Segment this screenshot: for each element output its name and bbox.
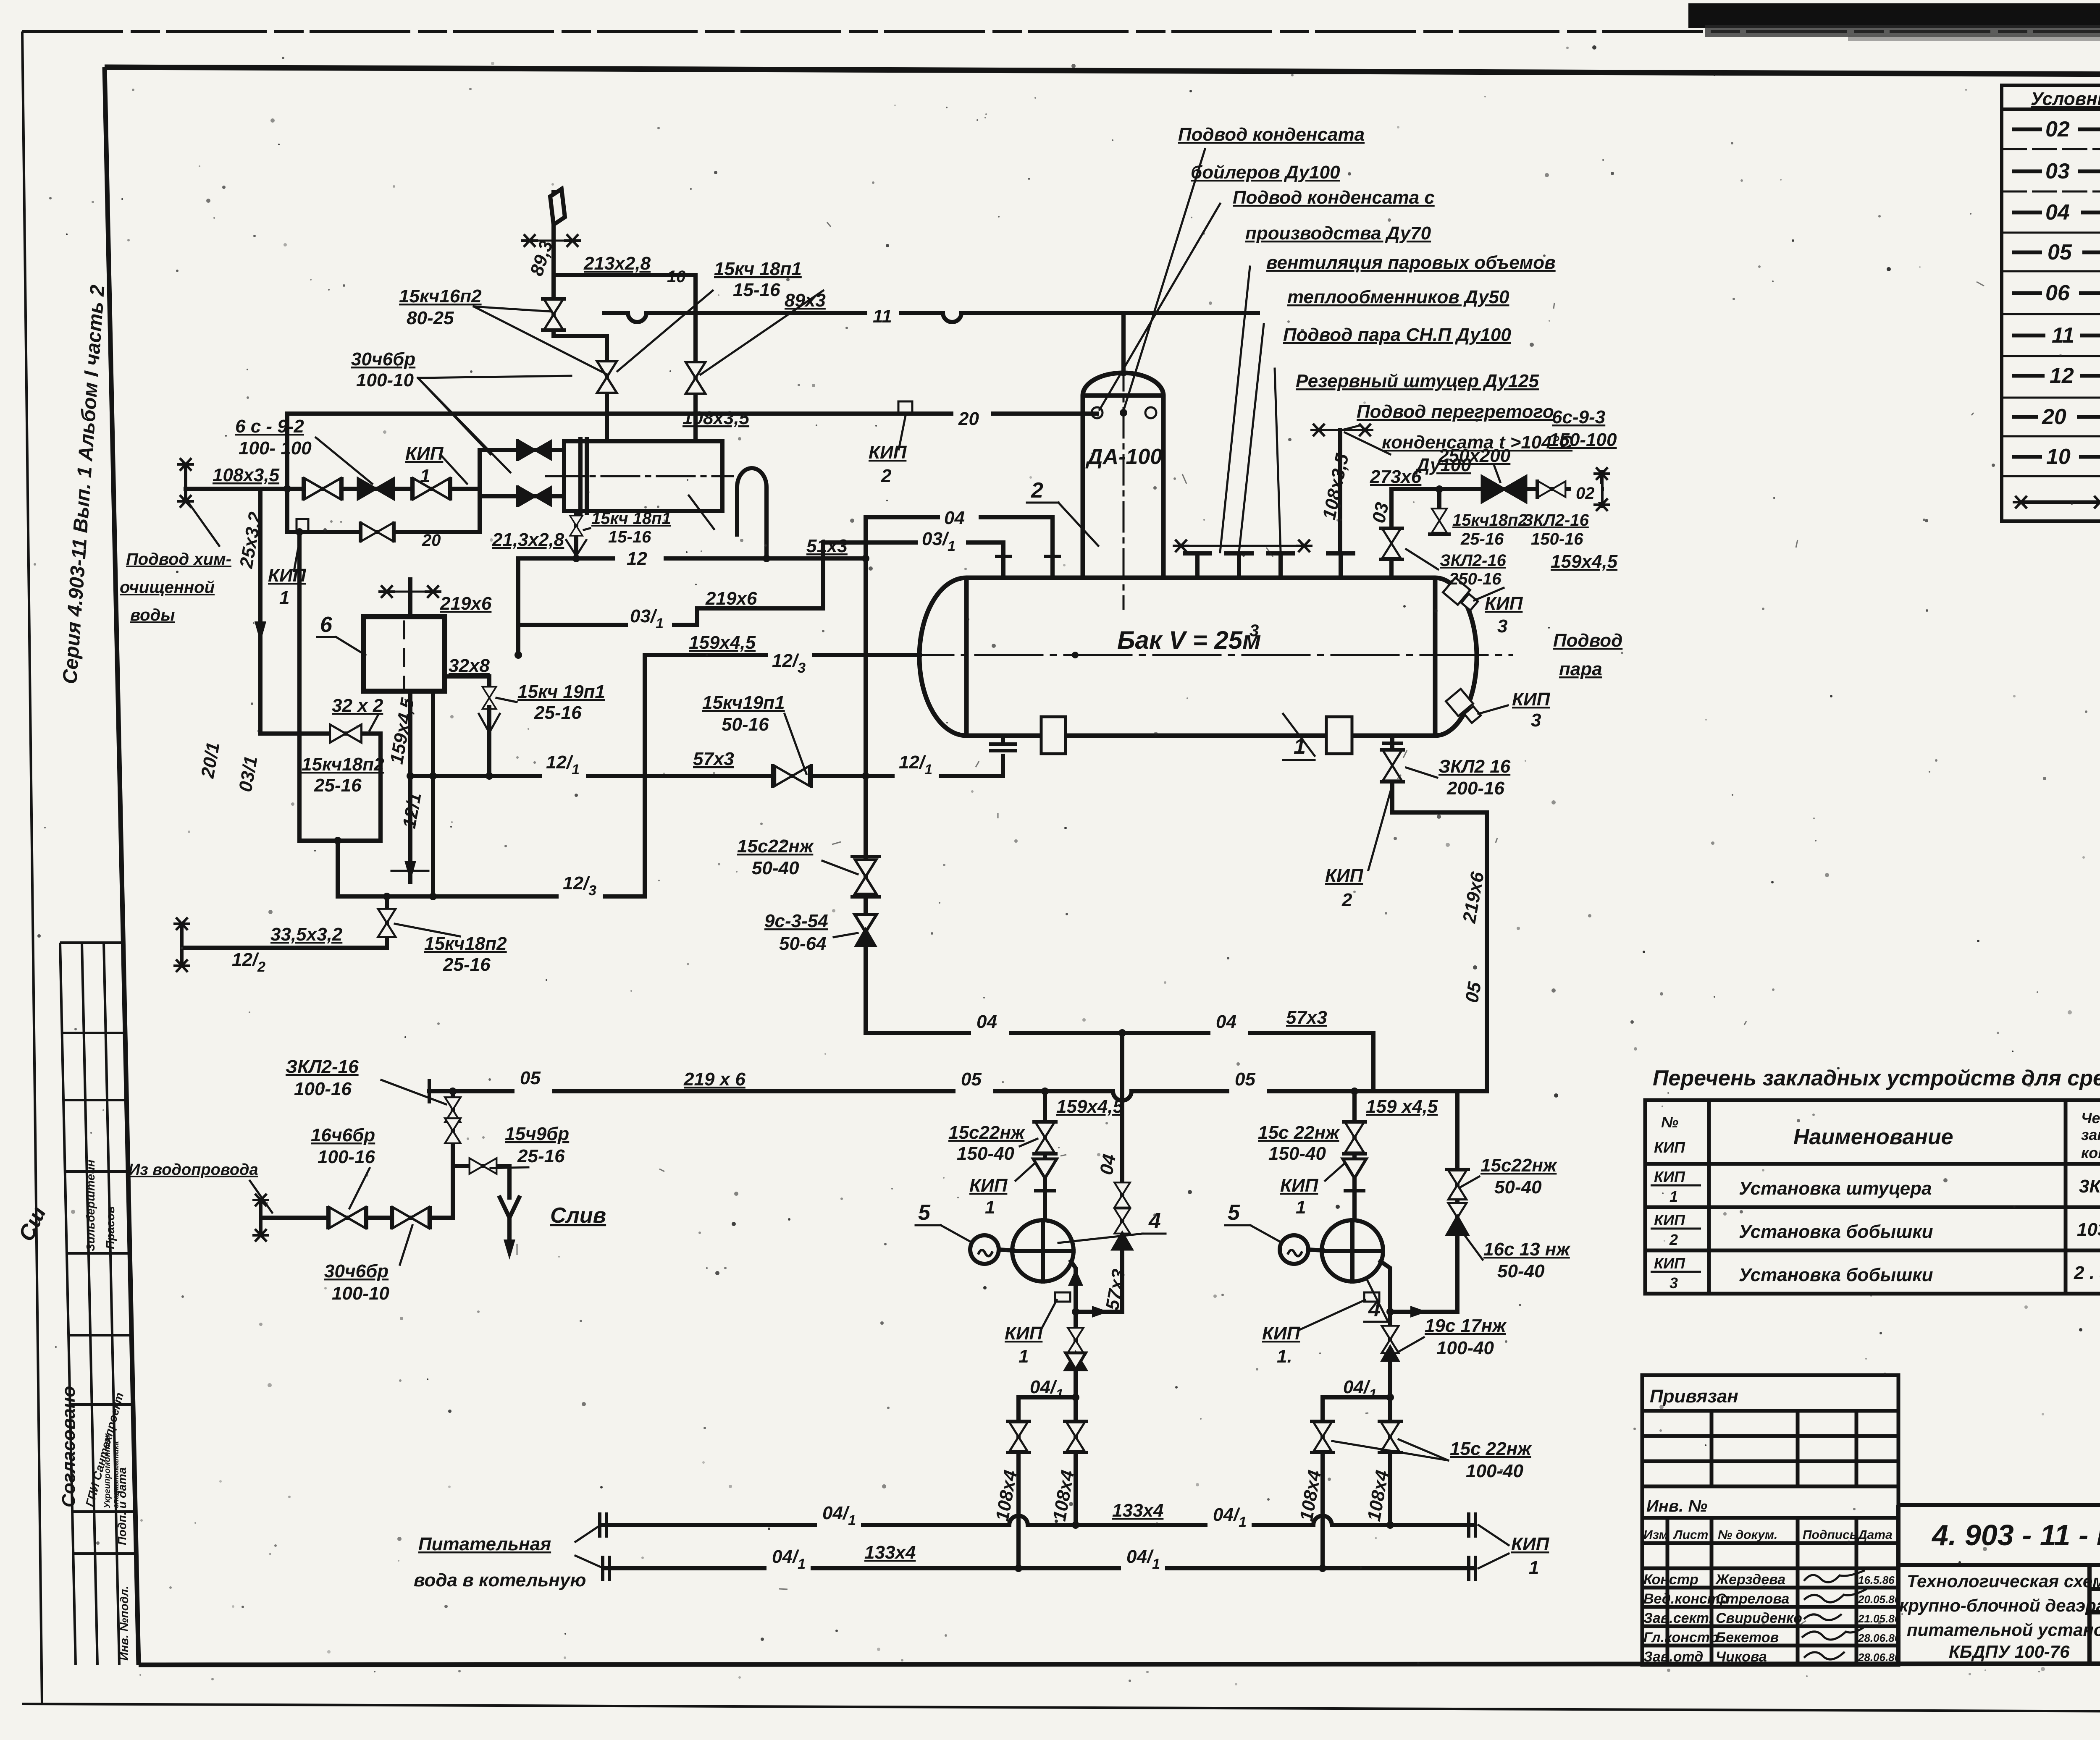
svg-text:20.05.86: 20.05.86 [1858,1593,1901,1606]
svg-text:108х3,5: 108х3,5 [682,408,750,428]
riser 2 to heat exchanger [693,275,698,441]
svg-text:КИП: КИП [1511,1534,1550,1554]
svg-text:№: № [1661,1114,1678,1131]
svg-text:3: 3 [1669,1274,1678,1292]
top label block [1178,124,1573,475]
svg-text:05: 05 [2047,240,2072,265]
svg-text:15кч18п2: 15кч18п2 [424,933,507,954]
tank bottom left nozzle [1001,756,1005,776]
svg-text:Подвод перегретого: Подвод перегретого [1357,401,1554,422]
svg-text:Свириденко: Свириденко [1716,1610,1802,1626]
svg-text:1: 1 [420,466,430,486]
valve 30ч6бр top inlet [520,441,551,459]
svg-text:КИП: КИП [969,1175,1008,1196]
svg-text:16с 13 нж: 16с 13 нж [1483,1239,1571,1260]
svg-text:Согласовано: Согласовано [58,1386,79,1507]
svg-text:15кч19п1: 15кч19п1 [702,692,785,713]
svg-text:15с 22нж: 15с 22нж [1450,1439,1532,1459]
svg-text:20: 20 [422,531,441,550]
svg-text:Технологическая схема: Технологическая схема [1907,1571,2100,1591]
svg-text:3: 3 [1497,616,1507,637]
svg-text:КИП: КИП [869,442,907,463]
valve ЗКЛ2-16 250-16 [1382,529,1400,558]
svg-text:Подвод пара СН.П Ду100: Подвод пара СН.П Ду100 [1283,325,1511,345]
svg-text:5: 5 [918,1200,931,1225]
svg-text:50-40: 50-40 [1494,1177,1542,1198]
pipe 03 to tank [1389,489,1394,529]
svg-text:ДА-100: ДА-100 [1085,445,1162,469]
label leader lines [1100,149,1390,552]
svg-text:пара: пара [1559,659,1602,679]
svg-text:Привязан: Привязан [1650,1386,1738,1407]
svg-text:15кч18п2: 15кч18п2 [302,754,384,775]
sliv funnel [500,1198,519,1218]
valve 15кч18п1 15-16 right [686,362,706,394]
svg-text:КИП: КИП [1654,1168,1685,1185]
pipe 03/1 to tank nozzle [823,542,1003,608]
КИП3 sensors on right head [1443,578,1508,723]
svg-text:30ч6бр: 30ч6бр [351,349,415,369]
svg-text:Зав.отд: Зав.отд [1643,1649,1703,1665]
svg-text:Резервный штуцер Ду125: Резервный штуцер Ду125 [1296,371,1539,391]
valve 15кч16п2 80-25 [544,299,564,330]
svg-text:воды: воды [130,606,175,624]
svg-text:133х4: 133х4 [1112,1500,1163,1521]
svg-text:КИП: КИП [405,443,444,464]
svg-text:Укргипромонтаж: Укргипромонтаж [103,1433,112,1508]
pipe 03/1 219x6 [518,608,823,625]
pump 1 suction pipe 159x4,5 [1043,1091,1047,1220]
svg-text:ЗКЛ2-16: ЗКЛ2-16 [1440,551,1507,570]
svg-text:КИП: КИП [268,565,307,586]
svg-text:02: 02 [1576,484,1595,503]
svg-text:1.: 1. [1277,1346,1292,1367]
svg-text:06: 06 [2045,281,2070,305]
svg-text:213х2,8: 213х2,8 [583,253,651,274]
tank bottom right nozzle [1390,736,1394,750]
drain 2 from box 6 [431,691,435,896]
valve 15с22нж 150-40 pump2 [1345,1122,1364,1153]
svg-text:150-16: 150-16 [1531,530,1583,548]
drain stub 15кч18п2 [1437,489,1441,508]
pump1 branch 108x4 left [1016,1397,1021,1568]
svg-text:50-40: 50-40 [1497,1261,1545,1281]
scanner smudge top right [1688,3,2100,28]
svg-text:159х4,5: 159х4,5 [689,632,756,653]
svg-text:6с-9-3: 6с-9-3 [1552,407,1605,427]
svg-text:конструкции: конструкции [2081,1144,2100,1161]
svg-text:Чикова: Чикова [1716,1649,1767,1665]
svg-text:159 х4,5: 159 х4,5 [1366,1096,1438,1117]
svg-text:80-25: 80-25 [407,308,454,328]
svg-text:питательной установки: питательной установки [1907,1620,2100,1640]
svg-text:ЗКЛ2 16: ЗКЛ2 16 [1438,756,1511,777]
pipe 05 219x6 down [1392,782,1487,1091]
svg-text:159х4,5: 159х4,5 [1056,1096,1123,1117]
valve 6с-9-2 100-100 [358,478,394,499]
svg-text:20: 20 [2042,405,2066,429]
svg-text:КИП: КИП [1654,1255,1685,1272]
pump2 branch 108x4 left [1320,1397,1325,1568]
svg-text:1: 1 [1294,734,1306,759]
svg-text:10: 10 [667,267,686,286]
pump 2 discharge pipe [1381,1261,1390,1397]
svg-text:Зильберштейн: Зильберштейн [84,1160,97,1251]
svg-text:150-100: 150-100 [1549,430,1617,450]
svg-text:Жерздева: Жерздева [1715,1572,1785,1588]
svg-text:219 х 6: 219 х 6 [683,1069,745,1090]
svg-text:2 . 3К4 . 1 - 75: 2 . 3К4 . 1 - 75 [2074,1263,2100,1283]
valve 15с22нж 100-40 pump1 right [1066,1422,1084,1451]
svg-text:КИП: КИП [1654,1211,1685,1229]
pump2 bypass 50-40 [1390,1091,1457,1312]
svg-text:28.06.80: 28.06.80 [1858,1651,1901,1664]
vent flag [550,189,565,225]
svg-text:25-16: 25-16 [517,1146,565,1166]
svg-text:12: 12 [2050,364,2074,388]
svg-text:28.06.86: 28.06.86 [1858,1632,1901,1644]
valve 15кч19п1 50-16 [775,766,809,786]
safety valve 9с-3-54 50-64 [855,915,877,932]
svg-text:Питательная: Питательная [418,1534,551,1554]
pipe 20 to deaerator column [287,411,1097,416]
svg-text:05: 05 [1235,1069,1255,1090]
svg-text:5: 5 [1228,1200,1240,1225]
svg-text:25-16: 25-16 [534,702,582,723]
pipe 11 выпар 89x3 [604,313,1258,322]
svg-text:Изм: Изм [1643,1528,1668,1542]
valve 19с17нж 100-40 [1382,1326,1399,1353]
pipe 12/1 57x3 [410,774,1003,778]
svg-text:15кч 18п1: 15кч 18п1 [591,509,671,528]
svg-text:100-40: 100-40 [1436,1338,1494,1358]
svg-text:КИП: КИП [1485,593,1523,614]
svg-text:57х3: 57х3 [693,749,734,769]
svg-text:57х3: 57х3 [1286,1007,1327,1028]
svg-text:1: 1 [279,587,289,608]
pump 1 discharge pipe [1071,1261,1076,1397]
svg-text:04: 04 [944,508,965,528]
svg-text:1: 1 [985,1197,995,1218]
svg-text:250-16: 250-16 [1449,570,1501,588]
svg-text:вода в котельную: вода в котельную [414,1570,586,1591]
svg-text:Подвод хим-: Подвод хим- [126,550,231,569]
svg-text:2: 2 [881,466,892,486]
svg-text:05: 05 [961,1069,982,1090]
svg-text:2: 2 [1341,890,1352,910]
water supply pipe from watermain [261,1091,453,1218]
valve ЗКЛ2-16 100-16 lower [445,1118,460,1143]
tank supports [1041,717,1066,754]
04 header [1118,1029,1126,1037]
tank centerline [886,654,1512,656]
pump 2 suction pipe 159x4,5 [1352,1091,1357,1220]
bypass pipe 20 [287,489,480,532]
svg-text:2: 2 [1031,478,1043,503]
svg-text:15-16: 15-16 [733,280,780,300]
svg-text:16ч6бр: 16ч6бр [311,1125,375,1145]
svg-text:Подп. и дата: Подп. и дата [115,1467,129,1545]
svg-text:150-40: 150-40 [957,1143,1015,1164]
svg-text:Дата: Дата [1857,1528,1893,1542]
left approval strip table [60,943,136,1665]
svg-text:100- 100: 100- 100 [239,438,312,459]
svg-text:32 х 2: 32 х 2 [332,695,383,716]
vent stack pipe 10 [551,192,556,336]
signature squiggles [1802,1570,1867,1659]
svg-text:очищенной: очищенной [120,578,215,597]
svg-text:100-16: 100-16 [294,1079,352,1099]
svg-text:2: 2 [1669,1231,1678,1248]
svg-text:03: 03 [1368,501,1393,525]
svg-text:16.5.86: 16.5.86 [1858,1574,1895,1586]
valve ЗКЛ2-16 200-16 [1383,750,1402,781]
pipe 32x8 [445,676,489,689]
svg-text:15с22нж: 15с22нж [1480,1155,1558,1176]
valve 15кч18п2 25-16 32x2 [330,724,362,742]
svg-text:33,5х3,2: 33,5х3,2 [270,924,343,945]
svg-text:02: 02 [2045,117,2070,142]
svg-text:20: 20 [958,409,979,429]
svg-text:КИП: КИП [1325,865,1364,886]
pump2 main 108x4 [1388,1397,1392,1525]
valve 15кч18п1 15-16 left [597,362,617,393]
svg-text:Перечень закладных устройств: Перечень закладных устройств для средств… [1653,1066,2100,1090]
pipe 219x6 into box 6 [408,579,412,617]
pipe 05 suction header [429,1091,1487,1101]
svg-text:Прасов: Прасов [104,1206,117,1249]
valve 30ч6бр 100-10 [393,1207,428,1228]
svg-text:вентиляция паровых объемов: вентиляция паровых объемов [1266,252,1556,273]
svg-text:№ докум.: № докум. [1718,1528,1777,1542]
svg-text:Констр: Констр [1643,1572,1698,1588]
steam inlet pipe 02 273x6 [1391,487,1602,491]
svg-text:1: 1 [1669,1188,1678,1205]
svg-text:15кч 19п1: 15кч 19п1 [517,681,605,702]
svg-text:Подпись: Подпись [1803,1528,1857,1542]
pipe 12/2 33,5x3,2 [182,896,387,948]
КИП1 funnel pump2 [1343,1159,1366,1178]
svg-text:04: 04 [1096,1153,1120,1177]
svg-text:Установка бобышки: Установка бобышки [1739,1221,1933,1242]
valve ЗКЛ2-16 100-16 upper [445,1097,460,1122]
svg-text:Условные обозначения: Условные обозначения [2031,89,2100,109]
svg-text:КИП: КИП [1654,1139,1685,1156]
svg-text:6: 6 [320,613,333,637]
valve 30ч6бр 100-10 bypass [362,523,393,541]
vapor line from dome to 11-line [1121,313,1126,374]
svg-text:закладные: закладные [2081,1126,2100,1143]
feedwater header 133x4 upper [603,1516,1472,1525]
pump1 main 108x4 [1074,1397,1078,1525]
big right part of title block [1898,1505,2100,1664]
svg-text:КИП: КИП [1280,1175,1319,1196]
drain 12/1 from box 6 [408,691,412,882]
svg-text:3К4 - 48 - 70: 3К4 - 48 - 70 [2079,1176,2100,1197]
svg-text:3: 3 [1531,710,1541,731]
svg-text:50-16: 50-16 [722,714,769,735]
svg-text:КБДПУ 100-76: КБДПУ 100-76 [1949,1642,2070,1661]
valve 15с22нж 100-40 pump2 left [1313,1422,1331,1451]
feedwater header 133x4 lower [606,1566,1472,1570]
svg-text:15с22нж: 15с22нж [948,1122,1026,1143]
svg-text:Наименование: Наименование [1793,1125,1953,1149]
drain branch to sliv [453,1166,509,1198]
svg-text:250х200: 250х200 [1438,445,1511,466]
svg-text:150-40: 150-40 [1268,1143,1326,1164]
svg-text:Стрелова: Стрелова [1716,1591,1789,1607]
superheated condensate pipe 108x3,5 [1338,430,1342,553]
svg-text:05: 05 [520,1068,541,1088]
svg-text:3: 3 [1249,621,1259,640]
КИП2 sensor pocket [898,401,912,414]
svg-text:32х8: 32х8 [449,655,490,676]
svg-text:15ч9бр: 15ч9бр [505,1124,569,1144]
svg-text:Слив: Слив [550,1203,606,1228]
boundary line over tank nozzles [1181,545,1304,547]
item 1 leader [1283,714,1315,756]
svg-text:19с 17нж: 19с 17нж [1425,1315,1507,1336]
svg-text:11: 11 [2052,323,2074,348]
svg-text:крупно-блочной деаэрационно: крупно-блочной деаэрационно [1899,1596,2100,1615]
svg-text:Зав.сект.: Зав.сект. [1643,1610,1713,1626]
svg-text:04: 04 [2045,200,2070,225]
svg-text:25-16: 25-16 [314,775,362,796]
valve 15кч19п1 25-16 [483,687,496,709]
svg-text:133х4: 133х4 [864,1542,916,1563]
pipe 04 to tank nozzle [866,517,1053,578]
valve 15ч9бр 25-16 [470,1158,496,1174]
svg-text:25-16: 25-16 [1460,530,1504,548]
svg-text:Чертеж на: Чертеж на [2081,1109,2100,1127]
svg-text:КИП: КИП [1512,689,1551,710]
pipe 12/3 159x4,5 [338,655,920,896]
svg-text:04: 04 [976,1012,997,1032]
svg-text:Бекетов: Бекетов [1716,1630,1779,1646]
riser to heat exchanger [605,336,609,441]
valve 16ч6бр 100-16 [329,1207,365,1228]
svg-text:108х3,5: 108х3,5 [213,465,280,485]
pipe 20 химочищенная вода 108x3,5 [186,487,480,491]
svg-text:103К4 . 1 - 75: 103К4 . 1 - 75 [2077,1219,2100,1240]
vent stack with flag [530,189,607,336]
svg-text:11: 11 [873,306,892,327]
svg-text:15с22нж: 15с22нж [737,836,814,857]
svg-text:ЗКЛ2-16: ЗКЛ2-16 [286,1056,359,1077]
svg-text:21,3х2,8: 21,3х2,8 [492,529,564,550]
svg-text:Инв. №подл.: Инв. №подл. [118,1586,131,1661]
legend table Условные обозначения [2002,85,2100,521]
valve ЗКЛ2-16 150-16 [1538,481,1565,497]
svg-text:Установка бобышки: Установка бобышки [1739,1265,1933,1285]
svg-text:100-10: 100-10 [356,370,414,390]
exchanger drain riser 21,3x2,8 [574,511,578,558]
valve 15кч18п2 25-16 steam [1432,508,1447,533]
svg-text:12: 12 [627,548,647,569]
svg-text:273х6: 273х6 [1370,466,1422,487]
svg-text:Установка штуцера: Установка штуцера [1739,1178,1932,1199]
svg-text:Бак V = 25м: Бак V = 25м [1117,626,1261,654]
svg-text:6 с - 9-2: 6 с - 9-2 [235,416,304,437]
pipe 04 suction header 57x3 [866,776,1373,1091]
svg-text:15-16: 15-16 [608,528,651,546]
valve 15с22нж 150-40 pump1 [1036,1122,1055,1153]
valve 16с13нж 50-40 [1448,1203,1466,1232]
valve 6с-9-3 150-100 [1482,477,1526,502]
pump1 bypass 57x3 [1076,1033,1122,1312]
svg-text:219х6: 219х6 [705,588,757,609]
svg-text:04: 04 [1216,1012,1236,1032]
exchanger inlet top stub [480,448,564,452]
КИП1 funnel pump1 [1033,1159,1057,1178]
valve 15с22нж 100-40 pump2 right [1381,1422,1399,1451]
svg-text:03: 03 [2045,159,2070,183]
svg-text:15кч 18п1: 15кч 18п1 [714,259,802,279]
gate valve before КИП1 [413,478,449,499]
svg-text:производства Ду70: производства Ду70 [1245,223,1431,244]
bypass valve upper pump1 [1114,1182,1130,1208]
check valve pump1 [1068,1328,1083,1353]
svg-text:Из водопровода: Из водопровода [129,1161,258,1179]
tank top nozzles with T bars [1185,553,1353,578]
valve 15с22нж 50-40 [855,860,877,894]
svg-text:Подвод конденсата с: Подвод конденсата с [1233,187,1435,208]
valve 15с22нж 100-40 pump1 left [1009,1422,1027,1451]
svg-text:15с 22нж: 15с 22нж [1258,1122,1340,1143]
valve 15кч18п2 25-16 drain [378,909,396,937]
svg-text:бойлеров Ду100: бойлеров Ду100 [1191,162,1340,183]
svg-text:1: 1 [1018,1346,1029,1367]
svg-text:теплообменников Ду50: теплообменников Ду50 [1287,287,1509,307]
pipe 213x2,8 header [554,273,696,277]
riser 04 [864,517,868,776]
pipe 12 condensate 51x3 [518,556,613,561]
svg-text:200-16: 200-16 [1446,778,1505,799]
svg-text:КИП: КИП [1262,1323,1301,1344]
svg-text:Подвод конденсата: Подвод конденсата [1178,124,1365,145]
gate valve on line 20 [304,478,340,499]
svg-text:4. 903 - 11 - В.1 - 11: 4. 903 - 11 - В.1 - 11 [1931,1519,2100,1551]
svg-text:05: 05 [1462,980,1486,1004]
svg-text:Подвод: Подвод [1553,630,1622,651]
white gaps under inline pipe labels [514,307,1601,1573]
svg-text:100-10: 100-10 [332,1283,390,1304]
svg-text:КИП: КИП [1005,1323,1043,1344]
svg-text:51х3: 51х3 [806,536,848,556]
svg-text:4: 4 [1148,1209,1161,1233]
svg-text:25-16: 25-16 [443,954,491,975]
svg-text:15кч16п2: 15кч16п2 [399,286,482,307]
svg-text:Гл.констр: Гл.констр [1643,1630,1719,1646]
svg-text:219х6: 219х6 [440,593,492,614]
svg-text:100-16: 100-16 [318,1147,375,1167]
svg-text:50-40: 50-40 [752,858,799,878]
svg-text:Лист: Лист [1673,1528,1708,1542]
bypass valve lower pump1 [1114,1208,1130,1234]
svg-text:1: 1 [1529,1557,1539,1578]
svg-text:1: 1 [1296,1197,1306,1218]
valve 30ч6бр bottom inlet [520,487,551,505]
svg-text:9с-3-54: 9с-3-54 [764,911,828,931]
valve 15кч18п1 15-16 drain [570,516,583,536]
recirculation loop pipe [260,532,381,841]
svg-text:30ч6бр: 30ч6бр [324,1261,388,1281]
svg-text:10: 10 [2046,445,2071,469]
probe line 25x3,2 / 20-1 [258,489,262,734]
svg-text:50-64: 50-64 [779,933,827,954]
valve 15с22нж 50-40 pump2 [1448,1170,1466,1199]
svg-text:100-40: 100-40 [1466,1461,1524,1481]
